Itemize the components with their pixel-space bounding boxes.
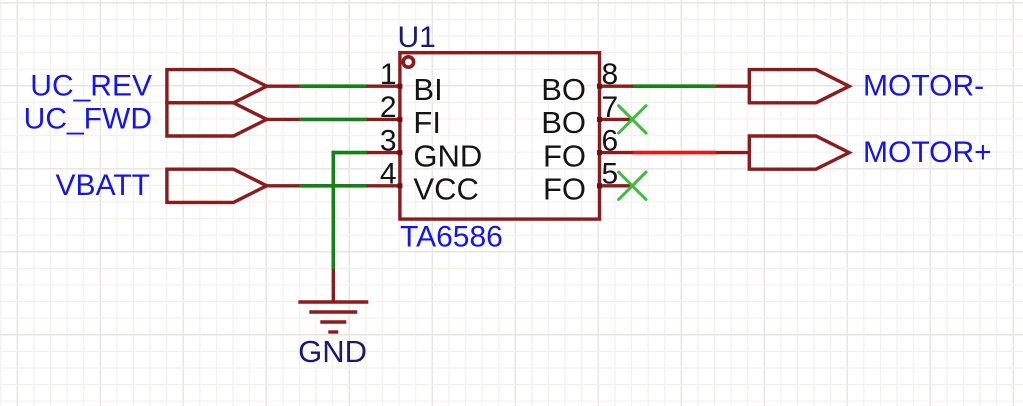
- pin2 junction: [397, 117, 402, 122]
- svg-text:FO: FO: [543, 138, 586, 173]
- svg-text:VCC: VCC: [413, 172, 478, 207]
- pin 8 line: [600, 84, 633, 87]
- pin4 junction: [397, 183, 402, 188]
- svg-text:UC_FWD: UC_FWD: [24, 103, 152, 136]
- wire net MOTOR+ pin6 (red): [632, 151, 716, 155]
- pin5 junction: [597, 183, 602, 188]
- pin 6 line: [600, 151, 633, 154]
- svg-text:BI: BI: [413, 72, 442, 107]
- svg-text:FO: FO: [543, 172, 586, 207]
- pin6 junction: [597, 150, 602, 155]
- wire GND horizontal to pin3: [332, 151, 368, 155]
- svg-text:VBATT: VBATT: [56, 169, 150, 202]
- svg-text:GND: GND: [413, 138, 482, 173]
- port UC_FWD stub: [267, 118, 300, 121]
- svg-text:FI: FI: [413, 105, 441, 140]
- svg-text:3: 3: [380, 124, 397, 157]
- svg-text:7: 7: [602, 91, 619, 124]
- ground bar 4: [328, 330, 338, 333]
- svg-text:UC_REV: UC_REV: [30, 70, 152, 103]
- svg-text:2: 2: [380, 91, 397, 124]
- svg-text:BO: BO: [541, 105, 586, 140]
- svg-text:MOTOR-: MOTOR-: [863, 70, 984, 103]
- port flag MOTOR-: [749, 70, 849, 103]
- port MOTOR+ stub: [716, 151, 749, 154]
- pin3 junction: [397, 150, 402, 155]
- svg-text:GND: GND: [298, 334, 367, 369]
- ground bar 3: [320, 320, 346, 323]
- wire net UC_FWD to pin2: [299, 118, 368, 122]
- port flag UC_REV: [167, 70, 267, 103]
- svg-text:6: 6: [602, 124, 619, 157]
- port flag UC_FWD: [167, 103, 267, 136]
- wire net MOTOR- pin8: [632, 84, 716, 88]
- svg-text:BO: BO: [541, 72, 586, 107]
- svg-text:8: 8: [602, 58, 619, 91]
- pin 7 line: [600, 118, 633, 121]
- port MOTOR- stub: [716, 84, 749, 87]
- pin 5 line: [600, 184, 633, 187]
- ground symbol stub: [332, 269, 335, 302]
- no-connect X pin7: [619, 106, 646, 133]
- wire net UC_REV to pin1: [299, 84, 368, 88]
- IC body U1: [400, 53, 600, 219]
- svg-text:5: 5: [602, 158, 619, 191]
- no-connect X pin5: [619, 172, 646, 199]
- port flag VBATT: [167, 169, 267, 202]
- ground bar 1: [298, 300, 368, 303]
- svg-text:MOTOR+: MOTOR+: [863, 136, 992, 169]
- pin 2 line: [367, 118, 400, 121]
- svg-text:U1: U1: [398, 21, 436, 54]
- port VBATT stub: [267, 184, 300, 187]
- svg-text:1: 1: [380, 58, 397, 91]
- ground bar 2: [309, 310, 357, 313]
- pin1 marker circle: [403, 57, 413, 67]
- wire net VBATT to pin4: [299, 184, 368, 188]
- pin7 junction: [597, 117, 602, 122]
- pin1 junction: [397, 84, 402, 89]
- svg-text:4: 4: [380, 158, 397, 191]
- port flag MOTOR+: [749, 136, 849, 169]
- pin 3 line: [367, 151, 400, 154]
- pin 1 line: [367, 84, 400, 87]
- wire GND vertical: [331, 151, 335, 269]
- svg-text:TA6586: TA6586: [400, 221, 503, 254]
- port UC_REV stub: [267, 84, 300, 87]
- pin8 junction: [597, 84, 602, 89]
- pin 4 line: [367, 184, 400, 187]
